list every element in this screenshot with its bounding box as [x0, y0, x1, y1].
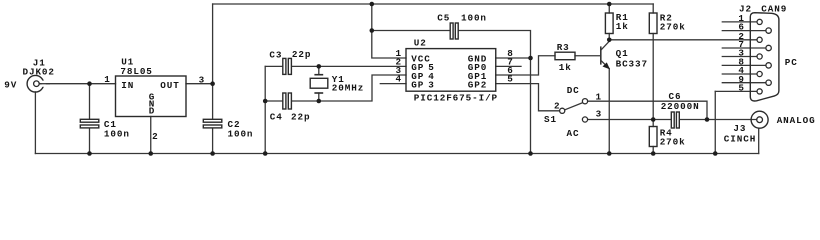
svg-text:100n: 100n [104, 129, 130, 140]
svg-text:CAN9: CAN9 [761, 4, 787, 15]
svg-text:1k: 1k [559, 62, 572, 73]
svg-text:5: 5 [738, 83, 744, 94]
svg-text:3: 3 [199, 74, 205, 85]
svg-text:100n: 100n [461, 12, 487, 23]
svg-text:270k: 270k [660, 22, 686, 33]
svg-text:U2: U2 [414, 38, 427, 49]
svg-text:BC337: BC337 [616, 58, 648, 69]
svg-text:CINCH: CINCH [724, 133, 756, 144]
svg-text:9V: 9V [4, 79, 17, 90]
svg-text:22p: 22p [292, 49, 311, 60]
svg-text:C3: C3 [269, 50, 282, 61]
svg-text:R3: R3 [557, 42, 570, 53]
svg-text:78L05: 78L05 [120, 66, 152, 77]
svg-text:5: 5 [507, 74, 513, 85]
svg-text:D: D [149, 105, 155, 116]
svg-text:PIC12F675-I/P: PIC12F675-I/P [414, 93, 498, 104]
svg-text:AC: AC [567, 128, 580, 139]
svg-text:ANALOG: ANALOG [777, 115, 816, 126]
svg-text:3: 3 [428, 80, 434, 91]
svg-text:C4: C4 [270, 112, 283, 123]
svg-text:22000N: 22000N [661, 101, 700, 112]
svg-text:20MHz: 20MHz [332, 82, 364, 93]
svg-text:DJK02: DJK02 [23, 67, 55, 78]
svg-text:1: 1 [596, 92, 602, 103]
svg-text:22p: 22p [291, 111, 310, 122]
svg-text:GP2: GP2 [468, 80, 487, 91]
svg-text:S1: S1 [544, 114, 557, 125]
svg-text:270k: 270k [660, 137, 686, 148]
svg-text:C5: C5 [437, 12, 450, 23]
svg-text:PC: PC [785, 57, 798, 68]
svg-text:IN: IN [121, 80, 134, 91]
svg-text:1k: 1k [616, 21, 629, 32]
svg-text:4: 4 [396, 74, 402, 85]
svg-text:DC: DC [567, 85, 580, 96]
svg-text:100n: 100n [228, 129, 254, 140]
svg-text:OUT: OUT [160, 80, 179, 91]
svg-text:2: 2 [554, 100, 560, 111]
svg-text:3: 3 [596, 109, 602, 120]
svg-text:1: 1 [104, 74, 110, 85]
svg-text:2: 2 [152, 131, 158, 142]
svg-text:GP: GP [411, 80, 424, 91]
